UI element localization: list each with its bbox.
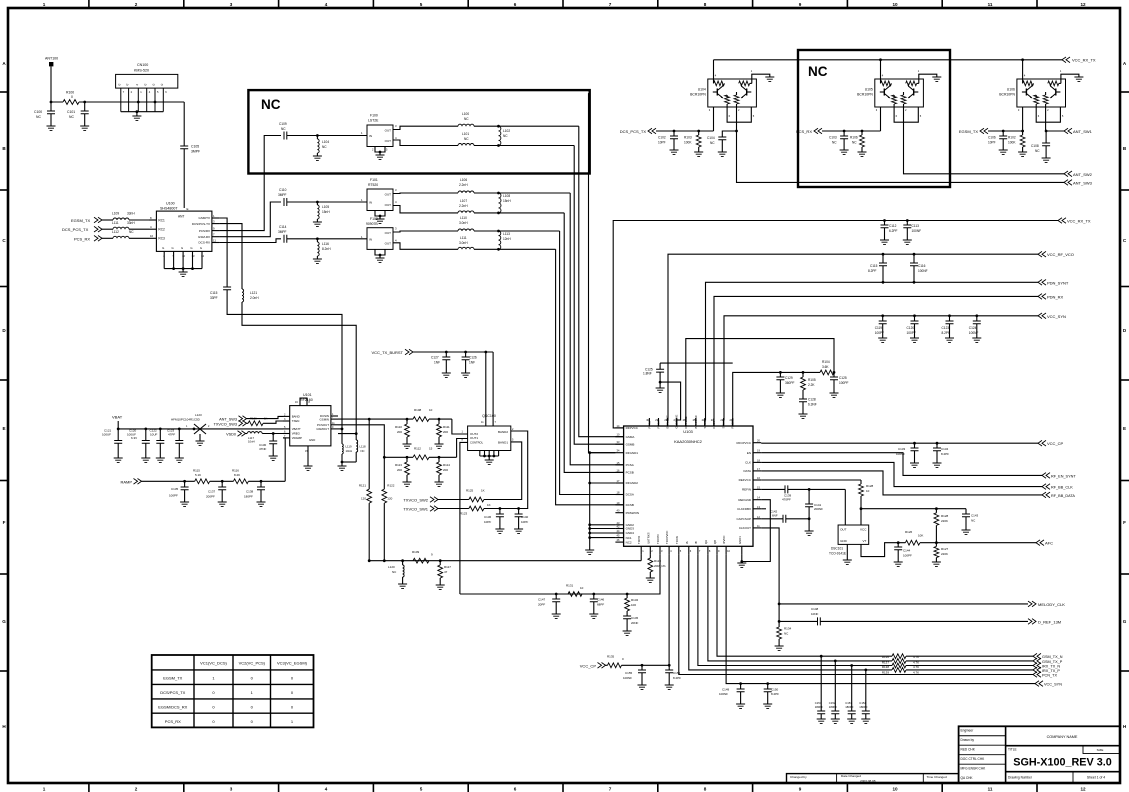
svg-text:R117: R117 — [444, 565, 451, 569]
wire to U102 BAND2 — [484, 431, 528, 509]
svg-text:C146: C146 — [597, 598, 605, 602]
U101 pin 7 GSMIN — [331, 418, 338, 420]
resistor R112 15 — [413, 455, 429, 460]
U104 pin2 — [736, 104, 738, 131]
svg-text:G: G — [2, 619, 6, 624]
svg-text:RFGND1: RFGND1 — [626, 451, 639, 455]
ground — [736, 704, 745, 708]
TXCPO loop filter line — [460, 555, 660, 594]
VCC_CP net (RFCPVCC) — [761, 442, 1038, 444]
wire to U102 BAND1 — [484, 442, 522, 500]
U103 pin 9 QB — [716, 546, 718, 554]
svg-text:TXCPO: TXCPO — [656, 534, 660, 544]
port PDN_RX — [1038, 294, 1046, 300]
inductor L119 10nH — [342, 444, 343, 454]
svg-text:R135: R135 — [607, 655, 615, 659]
svg-text:3.0nH: 3.0nH — [459, 221, 468, 225]
svg-text:C135: C135 — [171, 487, 179, 491]
resistor R100 — [63, 100, 79, 105]
svg-text:3.6K: 3.6K — [822, 365, 829, 369]
svg-text:U104: U104 — [698, 88, 706, 92]
svg-text:DCS_PCS_TX: DCS_PCS_TX — [62, 227, 89, 232]
R128/C143 node line — [860, 507, 863, 510]
svg-text:68PF: 68PF — [597, 603, 604, 607]
svg-text:F: F — [3, 520, 6, 525]
wire TXCPVCC to VCC_CP — [668, 555, 670, 666]
port VCC_RF_VCO — [1038, 251, 1046, 257]
svg-text:L107: L107 — [460, 199, 467, 203]
VBAT rail — [118, 421, 283, 429]
svg-text:10: 10 — [429, 408, 433, 412]
svg-text:Date Changed: Date Changed — [841, 774, 861, 778]
wire REFGND to GND1 — [742, 500, 771, 562]
U103 pin 19 DCSB — [615, 504, 623, 506]
svg-text:1K: 1K — [264, 416, 268, 420]
svg-text:1.8NF: 1.8NF — [643, 372, 652, 376]
svg-text:C138: C138 — [246, 490, 254, 494]
ground — [878, 338, 887, 342]
U101 pin 1 DCSIN — [331, 415, 338, 417]
svg-text:C115: C115 — [870, 264, 878, 268]
U103 pin 10 IPVCC — [725, 546, 727, 554]
U100 pin 4 RC2 — [149, 228, 156, 230]
svg-text:VBATT: VBATT — [292, 427, 301, 431]
svg-text:C134: C134 — [941, 447, 949, 451]
svg-text:L111: L111 — [460, 236, 467, 240]
capacitor C137 200PF — [221, 480, 224, 483]
svg-text:R&D CHK: R&D CHK — [961, 747, 976, 751]
ground — [847, 719, 856, 723]
U103 pin 28 BYPLOSC — [667, 418, 669, 426]
svg-text:OUT1: OUT1 — [470, 436, 478, 440]
svg-text:R137: R137 — [882, 660, 890, 664]
F101 ground pins — [375, 211, 385, 217]
capacitor C127 1NF — [445, 351, 448, 354]
inductor L109 33nH — [113, 218, 129, 220]
U100 ground pin 14 — [201, 251, 203, 268]
U100 pin 9 PCS/RX — [212, 230, 220, 232]
inductor L100 NC — [458, 124, 474, 126]
svg-text:RFGND2: RFGND2 — [626, 481, 639, 485]
port RF_BB_DATA — [1042, 492, 1050, 498]
capacitor C154 180PF — [864, 669, 867, 672]
svg-text:NC: NC — [322, 145, 327, 149]
svg-text:PCSA: PCSA — [626, 463, 634, 467]
svg-text:IKPTUNE: IKPTUNE — [684, 416, 688, 428]
capacitor C153 180PF — [850, 664, 853, 667]
svg-text:R138: R138 — [882, 665, 890, 669]
svg-text:PCN_TX: PCN_TX — [1042, 674, 1057, 678]
svg-text:REFIN: REFIN — [742, 488, 751, 492]
resistor R127 220K — [935, 541, 938, 544]
wire to U102 OUT2 — [452, 419, 468, 434]
svg-text:C136: C136 — [484, 515, 492, 519]
svg-text:1: 1 — [43, 2, 46, 7]
svg-text:NC: NC — [808, 64, 828, 79]
svg-text:R115: R115 — [193, 469, 200, 473]
svg-text:C120: C120 — [907, 326, 915, 330]
ground — [179, 272, 188, 276]
U103 pin 43 GND2 — [615, 524, 623, 526]
CN100 pin 5 — [154, 88, 156, 112]
svg-text:GND4: GND4 — [626, 531, 635, 535]
svg-text:REFGND: REFGND — [738, 498, 752, 502]
svg-text:CN100: CN100 — [137, 63, 148, 67]
svg-text:3: 3 — [230, 2, 233, 7]
inductor L118 NC — [356, 440, 358, 452]
svg-text:100NF: 100NF — [719, 692, 728, 696]
capacitor C146 68PF — [592, 593, 595, 596]
svg-text:5.1K: 5.1K — [195, 473, 201, 477]
svg-text:10K: 10K — [918, 534, 923, 538]
svg-text:NC: NC — [464, 137, 469, 141]
RF_BB_DATA net — [761, 471, 1042, 495]
CAPCSUP capacitor C142 6NF — [761, 518, 783, 520]
svg-text:G: G — [1123, 619, 1127, 624]
capacitor C125B 1.8NF — [659, 363, 661, 369]
svg-text:R126: R126 — [905, 530, 913, 534]
svg-text:BCR10PN: BCR10PN — [857, 93, 873, 97]
svg-text:OUT: OUT — [385, 242, 392, 246]
resistor R108 10 — [413, 417, 429, 422]
svg-text:5: 5 — [420, 2, 423, 7]
U100 ground pin 12 — [182, 251, 184, 268]
svg-text:2.2K: 2.2K — [808, 383, 815, 387]
svg-text:2: 2 — [135, 787, 138, 792]
svg-text:RAMP: RAMP — [120, 479, 132, 484]
svg-text:IPVCC: IPVCC — [722, 535, 726, 544]
svg-text:C103: C103 — [829, 136, 837, 140]
svg-text:7: 7 — [609, 787, 612, 792]
svg-text:TXCPVCC: TXCPVCC — [665, 531, 669, 544]
svg-text:DCSB: DCSB — [626, 503, 634, 507]
ground — [376, 219, 385, 223]
U103 pin 17 RFGND2 — [615, 482, 623, 484]
capacitor C119 100PF — [881, 314, 884, 317]
resistor R104 3.6K — [820, 370, 834, 375]
svg-text:RC2: RC2 — [158, 228, 165, 232]
wire U101 PCSOUT to R122 — [338, 425, 384, 489]
svg-text:RF2160: RF2160 — [300, 398, 313, 402]
U103 pin 19 EN — [753, 452, 761, 454]
resistor R137 4.7K — [892, 659, 906, 664]
svg-text:C106: C106 — [988, 136, 996, 140]
svg-text:DCSA: DCSA — [626, 493, 634, 497]
ground — [972, 338, 981, 342]
ground — [435, 482, 444, 486]
AFC net from VT — [861, 543, 905, 557]
svg-text:7: 7 — [609, 2, 612, 7]
shunt inductor L104 NC — [316, 134, 319, 137]
ground — [861, 719, 870, 723]
svg-text:8: 8 — [704, 787, 707, 792]
svg-text:F102: F102 — [370, 217, 378, 221]
svg-text:L120: L120 — [388, 565, 395, 569]
svg-text:R132: R132 — [631, 598, 639, 602]
capacitor C140 10PF — [517, 507, 520, 510]
svg-text:GND3: GND3 — [626, 527, 635, 531]
svg-text:R136: R136 — [882, 655, 890, 659]
svg-text:OUT: OUT — [385, 192, 392, 196]
wire U104 output to ANT_SW3 — [737, 131, 1065, 182]
svg-text:R120: R120 — [250, 416, 257, 420]
resistor R105 2.2K — [802, 371, 805, 374]
U103 pin 21 RFCPO — [732, 418, 734, 426]
port VCC_CP — [1038, 440, 1046, 446]
svg-text:TXVCO_SW1: TXVCO_SW1 — [403, 507, 428, 512]
shunt inductor L102 NC — [497, 125, 500, 128]
svg-text:D_REF_13M: D_REF_13M — [1038, 619, 1061, 624]
svg-text:TXIPR: TXIPR — [637, 536, 641, 544]
svg-text:F101: F101 — [370, 178, 378, 182]
svg-text:8.2K: 8.2K — [234, 473, 240, 477]
svg-text:R110: R110 — [395, 425, 402, 429]
svg-text:PCS/RX: PCS/RX — [199, 229, 210, 233]
ground — [945, 338, 954, 342]
svg-text:12nH: 12nH — [503, 237, 511, 241]
U103 pin 40 PDSWON — [615, 512, 623, 514]
port VCC_SYN (bottom) — [1035, 681, 1043, 687]
IC U103 KAA2030NHC2 — [624, 426, 753, 546]
svg-text:VCC_CP: VCC_CP — [580, 663, 597, 668]
CN100 pin 4 — [146, 88, 148, 112]
svg-text:OUT: OUT — [385, 139, 392, 143]
capacitor C102 10PF — [673, 130, 676, 133]
ground — [1042, 158, 1051, 162]
svg-text:C102: C102 — [658, 136, 666, 140]
U100 pin 3 DCS/PCS-TX — [212, 223, 220, 225]
U100 pin 10 RC3 — [149, 237, 156, 239]
svg-text:QA: QA — [704, 540, 708, 544]
ground — [665, 685, 674, 689]
svg-text:200: 200 — [397, 468, 402, 472]
svg-text:R134: R134 — [784, 627, 792, 631]
U103 pin 6 IA — [688, 546, 690, 554]
port PDN_SYNT — [1038, 280, 1046, 286]
svg-text:L112: L112 — [112, 230, 119, 234]
svg-text:SYNHO: SYNHO — [722, 418, 726, 429]
U100 pin 8 RC1 — [149, 219, 156, 221]
svg-text:CLKOUT: CLKOUT — [739, 526, 751, 530]
svg-text:DSC101: DSC101 — [831, 547, 843, 551]
svg-text:IA: IA — [685, 541, 689, 544]
wire DCS-RX to F102 input — [219, 239, 281, 243]
svg-text:47NF: 47NF — [259, 447, 267, 451]
svg-text:C112: C112 — [889, 224, 897, 228]
svg-text:DATA: DATA — [743, 469, 751, 473]
U102 VCC wires — [484, 351, 487, 354]
svg-text:R139: R139 — [882, 671, 890, 675]
svg-text:2: 2 — [135, 2, 138, 7]
port VCC_RX_TX — [1062, 57, 1070, 63]
svg-text:EN: EN — [747, 451, 751, 455]
U103 pin 7 IB — [697, 546, 699, 554]
svg-text:Sheet 1 of 4: Sheet 1 of 4 — [1087, 776, 1105, 780]
capacitor C103 NC — [843, 130, 846, 133]
resistor R136 4.7K — [892, 654, 906, 659]
svg-text:ANT: ANT — [178, 215, 184, 219]
U103 pin 15 PCSA — [615, 464, 623, 466]
PDN_RX net — [714, 296, 1038, 426]
port GSM_TX_P — [1033, 658, 1041, 664]
svg-text:L109: L109 — [112, 212, 119, 216]
U103 left ground bus — [589, 453, 591, 548]
inductor L120 NC — [401, 559, 404, 562]
svg-text:L116: L116 — [322, 242, 329, 246]
svg-text:U101: U101 — [303, 393, 312, 397]
resistor R115 5.1K — [195, 479, 210, 484]
svg-text:IRX_TX_N: IRX_TX_N — [1042, 665, 1060, 669]
svg-text:EGSM/DCS_RX: EGSM/DCS_RX — [158, 705, 187, 710]
U103 pin 14 REFGND — [753, 499, 761, 501]
port MELODY_CLK — [1028, 601, 1036, 607]
CN100 pin 6 — [162, 88, 164, 112]
capacitor C106 10PF — [1002, 130, 1005, 133]
svg-text:OUT: OUT — [385, 203, 392, 207]
svg-text:G: G — [172, 246, 174, 250]
svg-text:1K: 1K — [487, 503, 491, 507]
svg-text:RT520: RT520 — [368, 183, 378, 187]
U100 ground pin 2 — [163, 251, 165, 268]
svg-text:GNDTUNE: GNDTUNE — [675, 415, 679, 429]
resistor R138 4.7K — [892, 663, 906, 668]
svg-text:G: G — [200, 246, 202, 250]
svg-text:L101: L101 — [462, 132, 469, 136]
svg-text:BYPLOSC: BYPLOSC — [666, 415, 670, 428]
svg-text:COMPANY NAME: COMPANY NAME — [1047, 735, 1078, 739]
capacitor C155 100NF — [641, 664, 644, 667]
svg-text:L110: L110 — [460, 216, 467, 220]
capacitor C134 8.2PF — [936, 442, 939, 445]
svg-text:C128: C128 — [808, 398, 816, 402]
svg-text:MFG ENGR CHK: MFG ENGR CHK — [961, 766, 987, 770]
U101 pin 2 BAND — [283, 415, 290, 417]
ground — [910, 463, 919, 467]
ground — [805, 531, 814, 535]
svg-text:IN: IN — [369, 134, 372, 138]
svg-text:IN: IN — [369, 238, 372, 242]
ground — [80, 126, 89, 130]
F100 ground pins — [375, 147, 385, 153]
svg-text:15nH: 15nH — [322, 210, 330, 214]
svg-text:G: G — [190, 246, 192, 250]
svg-text:R113: R113 — [395, 463, 402, 467]
U103 pin 46 NC2 — [615, 541, 623, 543]
U103 pin 2 ILVTRXS — [649, 546, 651, 554]
svg-text:6NF: 6NF — [772, 514, 778, 518]
svg-text:TXON: TXON — [675, 536, 679, 544]
svg-text:10: 10 — [892, 787, 898, 792]
wire DCS/PCS-TX to L121 — [219, 224, 242, 289]
wire IB to IRX_TX_N — [698, 555, 892, 666]
svg-text:VCC_CP: VCC_CP — [1047, 441, 1064, 446]
svg-text:QB: QB — [713, 540, 717, 544]
svg-text:RF_BB_DATA: RF_BB_DATA — [1051, 494, 1075, 498]
TXIPR bias line — [370, 560, 641, 562]
U103 pin 4 TXCPVCC — [668, 546, 670, 554]
ground — [403, 444, 412, 448]
resistor R113 200 — [406, 456, 409, 459]
wire antenna to R100 — [51, 66, 63, 102]
svg-text:R105: R105 — [808, 378, 816, 382]
ground — [442, 373, 451, 377]
U101 pin 11 PCSOUT — [331, 424, 338, 426]
U103 pin 11 CLKOUT — [753, 527, 761, 529]
svg-text:C104: C104 — [707, 136, 715, 140]
svg-text:6.3V: 6.3V — [131, 436, 137, 440]
U103 pin 14 RFPVCC — [615, 427, 623, 429]
U101 pin 3 TXEN — [283, 420, 290, 422]
CN100 pin 1 — [137, 88, 139, 112]
wire PA DCS out to L118 — [242, 302, 356, 440]
svg-text:100PF: 100PF — [903, 554, 912, 558]
svg-text:R106: R106 — [850, 136, 858, 140]
svg-text:TXVCO_SW2: TXVCO_SW2 — [403, 498, 428, 503]
svg-text:9: 9 — [799, 2, 802, 7]
U106 pin3 — [1022, 107, 1024, 131]
svg-text:GSM_TX_P: GSM_TX_P — [1042, 660, 1063, 664]
svg-text:NC: NC — [261, 97, 281, 112]
svg-text:VCC_RX_TX: VCC_RX_TX — [1072, 58, 1096, 63]
svg-text:U105: U105 — [865, 88, 873, 92]
resistor R117 47 — [439, 559, 442, 562]
svg-text:100NF: 100NF — [912, 229, 922, 233]
svg-text:20NF: 20NF — [631, 621, 639, 625]
svg-text:11: 11 — [988, 2, 993, 7]
svg-text:PDN_RX: PDN_RX — [1047, 294, 1064, 299]
svg-text:PCS_RX: PCS_RX — [165, 719, 181, 724]
port D_REF_13M — [1028, 619, 1036, 625]
resistor R103 100K — [697, 130, 700, 133]
ground — [656, 388, 665, 392]
wire IKPTUNE feed line — [686, 339, 834, 426]
svg-text:6: 6 — [514, 787, 517, 792]
ground — [880, 240, 889, 244]
svg-text:BAND1: BAND1 — [498, 440, 508, 444]
svg-text:L102: L102 — [503, 129, 510, 133]
svg-text:KMS-520: KMS-520 — [134, 69, 149, 73]
svg-text:11: 11 — [213, 238, 216, 242]
title block — [959, 726, 1120, 783]
svg-text:C129: C129 — [785, 376, 793, 380]
wire to DSC101 OUT — [844, 489, 846, 525]
svg-text:GSM-RX: GSM-RX — [198, 235, 210, 239]
VCC_RX_TX rail (top) — [714, 59, 1063, 61]
svg-text:OUT: OUT — [385, 231, 392, 235]
U101 pin 5 VBATT — [283, 428, 290, 430]
svg-text:NC2: NC2 — [626, 540, 632, 544]
svg-text:ANT_SW3: ANT_SW3 — [1073, 180, 1093, 185]
svg-text:120: 120 — [361, 497, 366, 501]
svg-text:R122: R122 — [387, 484, 395, 488]
svg-text:PDN_SYNT: PDN_SYNT — [1047, 280, 1069, 285]
U104 pin3 — [713, 107, 715, 131]
svg-text:L106: L106 — [460, 178, 467, 182]
ground — [218, 502, 227, 506]
resistor R125 1K — [469, 497, 484, 502]
svg-text:L111: L111 — [112, 221, 119, 225]
capacitor C112 6.2PF — [883, 219, 886, 222]
svg-text:Changed by: Changed by — [790, 775, 807, 779]
ground — [435, 444, 444, 448]
capacitor C128 6.3NF — [802, 390, 804, 399]
svg-text:C147: C147 — [538, 598, 546, 602]
svg-text:100K: 100K — [684, 141, 692, 145]
svg-text:E: E — [1123, 426, 1126, 431]
svg-text:VC2(VC_PCS): VC2(VC_PCS) — [239, 661, 266, 666]
ground — [999, 150, 1008, 154]
svg-text:E: E — [187, 207, 189, 211]
